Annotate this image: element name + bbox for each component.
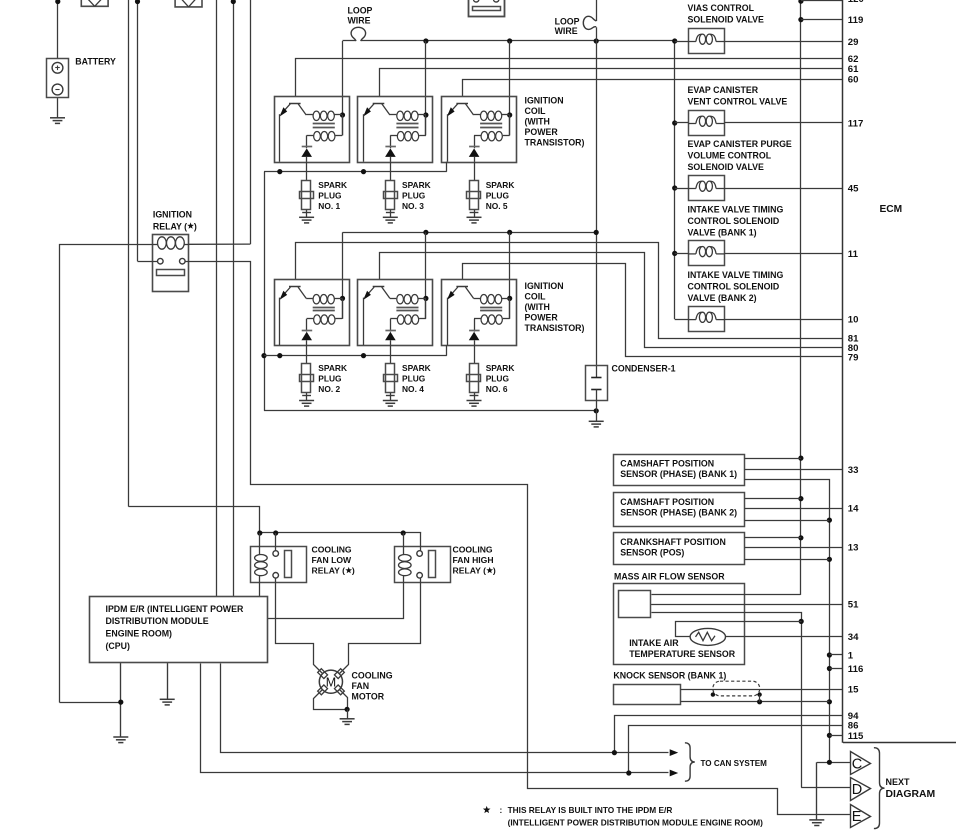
svg-text::: :	[500, 805, 503, 815]
ignition coil 1	[275, 97, 350, 163]
svg-text:11: 11	[848, 249, 859, 260]
wire purge valve to ECM45	[725, 188, 844, 190]
svg-text:CAMSHAFT POSITION: CAMSHAFT POSITION	[620, 497, 714, 507]
label NO. 4	[402, 363, 431, 394]
wire D feed	[801, 787, 850, 789]
wire ECM116 stub	[829, 668, 843, 670]
fusible link 1	[81, 0, 108, 6]
svg-text:MASS AIR FLOW SENSOR: MASS AIR FLOW SENSOR	[614, 572, 725, 582]
cooling fan high relay	[395, 546, 451, 582]
wire intake valve 1 to ECM11	[725, 253, 844, 255]
svg-text:WIRE: WIRE	[348, 16, 371, 26]
wire battery line to relay coil	[60, 245, 153, 703]
label INTAKE VALVE TIMING CONTROL SOLENOID VALVE (BANK 2)	[688, 270, 784, 303]
wire coil5 to spark plug 5	[474, 162, 476, 181]
wire lower coil common bus	[264, 345, 447, 358]
wire to IPDM vertical 2	[231, 0, 236, 597]
wire ECM60 to coil5 base	[463, 80, 843, 97]
svg-text:15: 15	[848, 685, 859, 696]
wire low relay contact top	[275, 533, 277, 551]
wire cam2 signal to ECM14	[745, 508, 843, 510]
svg-text:(INTELLIGENT POWER DISTRIBUTIO: (INTELLIGENT POWER DISTRIBUTION MODULE E…	[508, 818, 764, 828]
wire fan relay bus	[257, 530, 421, 535]
svg-text:29: 29	[848, 37, 859, 48]
wire bus to coil4 primary	[423, 232, 428, 318]
svg-text:): )	[194, 221, 197, 231]
wire cam1 supply	[745, 458, 801, 460]
label NO. 2	[318, 363, 347, 394]
footnote	[500, 805, 764, 828]
loop wire 2	[583, 16, 596, 29]
label NO. 1	[318, 180, 347, 211]
svg-text:VENT CONTROL VALVE: VENT CONTROL VALVE	[688, 96, 788, 106]
star ignition relay	[187, 221, 197, 231]
label IGNITION RELAY	[153, 209, 192, 231]
ECM boundary	[843, 0, 956, 743]
spark plug NO. 3	[383, 181, 398, 223]
svg-text:SOLENOID VALVE: SOLENOID VALVE	[688, 162, 765, 172]
svg-text:IGNITION: IGNITION	[153, 209, 192, 219]
IPDM E/R box	[90, 597, 268, 663]
svg-text:FAN LOW: FAN LOW	[312, 555, 353, 565]
star FAN LOW	[345, 566, 355, 576]
label COOLING FAN MOTOR	[352, 671, 393, 702]
wire relay contact output	[186, 262, 851, 815]
wire cam2 supply	[745, 498, 801, 500]
wire to IPDM vertical 1	[216, 0, 218, 597]
wire ECM86 to CAN low	[626, 726, 842, 776]
ignition relay	[153, 235, 189, 292]
battery	[47, 59, 69, 98]
svg-text:WIRE: WIRE	[555, 26, 578, 36]
wire fuse to relay contact (left)	[138, 261, 158, 263]
wire loop bus to coil5 primary	[507, 41, 512, 135]
wire coil1 to spark plug 1	[306, 162, 308, 181]
label IGNITION COIL (upper)	[525, 96, 585, 148]
camshaft position sensor (phase) (bank 1)	[614, 455, 745, 486]
svg-text:C: C	[852, 756, 862, 772]
wire shield vertical dots	[827, 518, 832, 739]
svg-text:120: 120	[848, 0, 864, 5]
condenser C1	[586, 366, 608, 411]
wire motor to ground	[314, 690, 355, 725]
svg-text:61: 61	[848, 64, 859, 75]
svg-text:VOLUME CONTROL: VOLUME CONTROL	[688, 151, 772, 161]
wire IPDM CAN high	[221, 664, 669, 753]
spark plug NO. 2	[299, 364, 314, 407]
wire coil4 to spark plug 4	[390, 345, 392, 364]
ignition coil 3	[358, 97, 433, 163]
loop wire 1	[351, 27, 366, 41]
wire MAF signal to ECM51	[651, 604, 843, 606]
EVAP canister purge volume control solenoid valve	[688, 176, 724, 201]
ignition coil 2	[275, 280, 350, 346]
svg-text:45: 45	[848, 183, 859, 194]
svg-text:SPARK: SPARK	[402, 180, 431, 190]
svg-text:NO. 3: NO. 3	[402, 201, 424, 211]
wire VIAS to ECM29	[725, 41, 844, 43]
spark plug NO. 6	[467, 364, 482, 407]
svg-text:ECM: ECM	[880, 204, 903, 215]
wire loop bus to coil1 primary	[340, 41, 345, 135]
VIAS control solenoid valve	[688, 29, 724, 54]
svg-text:(CPU): (CPU)	[106, 641, 131, 651]
svg-text:NO. 5: NO. 5	[486, 201, 508, 211]
svg-text:SENSOR (POS): SENSOR (POS)	[620, 548, 684, 558]
wire purge valve left	[675, 188, 689, 190]
battery ground	[50, 98, 65, 123]
knock sensor (bank 1)	[614, 685, 681, 705]
wire high relay contact to motor	[340, 579, 421, 674]
svg-text:PLUG: PLUG	[318, 374, 341, 384]
svg-text:NO. 1: NO. 1	[318, 201, 340, 211]
wire ECM94 to CAN high	[612, 716, 843, 756]
shield drain ground	[809, 762, 824, 825]
wire knock signal to ECM15	[681, 689, 844, 691]
svg-text:TRANSISTOR): TRANSISTOR)	[525, 138, 585, 148]
wire bus to coil2 primary	[340, 232, 345, 318]
wire ECM81 to coil2 base	[296, 243, 843, 339]
svg-text:RELAY (: RELAY (	[153, 221, 187, 231]
wire crank low	[745, 559, 830, 561]
CAN high arrow	[670, 749, 679, 756]
wire intake valve 2 left	[675, 319, 689, 321]
camshaft position sensor (phase) (bank 2)	[614, 493, 745, 527]
svg-text:E: E	[852, 809, 862, 825]
label IGNITION COIL (lower)	[525, 281, 585, 333]
svg-text:POWER: POWER	[525, 313, 559, 323]
ignition coil 4	[358, 280, 433, 346]
relay (top, partial)	[469, 0, 505, 17]
svg-text:1: 1	[848, 650, 854, 661]
dot MAF/IAT junction	[799, 619, 804, 624]
svg-text:SOLENOID VALVE: SOLENOID VALVE	[688, 15, 765, 25]
wire upper bus to lower bus vertical	[261, 172, 266, 411]
svg-text:SPARK: SPARK	[318, 363, 347, 373]
svg-text:SPARK: SPARK	[402, 363, 431, 373]
wire fuse to ignition-relay-contact vertical	[135, 0, 140, 261]
svg-text:VALVE (BANK 1): VALVE (BANK 1)	[688, 227, 757, 237]
wire cam1 signal to ECM33	[745, 469, 843, 471]
shielded cable	[711, 681, 762, 702]
wire coil6 to spark plug 6	[474, 345, 476, 364]
label VIAS CONTROL SOLENOID VALVE	[688, 3, 765, 25]
wire loop bus to coil3 primary	[423, 41, 428, 135]
svg-text:RELAY (: RELAY (	[453, 566, 487, 576]
svg-text:33: 33	[848, 465, 859, 476]
svg-text:116: 116	[848, 664, 863, 675]
svg-text:60: 60	[848, 75, 859, 86]
wire coil2 to spark plug 2	[306, 345, 308, 364]
svg-text:LOOP: LOOP	[555, 16, 580, 26]
intake valve timing control solenoid valve (bank 2)	[688, 307, 724, 332]
svg-text:THIS RELAY IS BUILT INTO THE I: THIS RELAY IS BUILT INTO THE IPDM E/R	[508, 805, 673, 815]
svg-text:IGNITION: IGNITION	[525, 96, 564, 106]
connector E	[851, 805, 871, 828]
wire coil3 to spark plug 3	[390, 162, 392, 181]
svg-text:COIL: COIL	[525, 292, 547, 302]
wire sensor common vertical (upper)	[798, 0, 803, 595]
wire ECM62 to coil1 base	[296, 59, 843, 97]
svg-text:): )	[493, 566, 496, 576]
svg-text:115: 115	[848, 731, 864, 742]
wire upper coil common bus	[264, 162, 447, 175]
svg-text:TO CAN SYSTEM: TO CAN SYSTEM	[701, 759, 768, 768]
svg-text:COOLING: COOLING	[312, 545, 352, 555]
wire IPDM ground 2	[160, 663, 175, 705]
wire ECM79 to coil6 base	[463, 264, 843, 357]
spark plug NO. 4	[383, 364, 398, 407]
label NO. 3	[402, 180, 431, 211]
svg-text:INTAKE VALVE TIMING: INTAKE VALVE TIMING	[688, 204, 784, 214]
label EVAP CANISTER PURGE VOLUME CONTROL SOLENOID VALVE	[688, 139, 792, 172]
wire IPDM CAN low	[201, 664, 669, 773]
fusible link 2	[175, 0, 202, 7]
wire to ignition-relay-coil vertical	[250, 0, 252, 244]
brace NEXT DIAGRAM	[874, 748, 885, 829]
wire relay coil to top vertical	[189, 243, 251, 245]
svg-text:INTAKE AIR: INTAKE AIR	[629, 638, 679, 648]
svg-text:TRANSISTOR): TRANSISTOR)	[525, 323, 585, 333]
svg-text:FAN: FAN	[352, 681, 370, 691]
wire IPDM ground 1	[60, 663, 129, 743]
wire cam1 low	[745, 480, 830, 763]
wire intake valve 2 to ECM10	[725, 319, 844, 321]
svg-text:TEMPERATURE SENSOR: TEMPERATURE SENSOR	[629, 649, 736, 659]
wire solenoid feeder vertical	[672, 38, 677, 319]
svg-text:DISTRIBUTION MODULE: DISTRIBUTION MODULE	[106, 616, 209, 626]
svg-text:PLUG: PLUG	[486, 374, 509, 384]
wire shield drain to C	[817, 760, 851, 765]
wire bus to coil6 primary	[507, 232, 512, 318]
wire ECM119 stub	[801, 19, 843, 21]
ignition coil 6	[442, 280, 517, 346]
svg-text:CONTROL SOLENOID: CONTROL SOLENOID	[688, 281, 780, 291]
wire intake valve 1 left	[675, 253, 689, 255]
wire lower coil feed bus	[343, 230, 599, 235]
svg-text:PLUG: PLUG	[402, 190, 425, 200]
svg-text:10: 10	[848, 315, 859, 326]
svg-text:BATTERY: BATTERY	[75, 57, 116, 67]
svg-text:SENSOR (PHASE) (BANK 1): SENSOR (PHASE) (BANK 1)	[620, 469, 737, 479]
svg-text:VIAS CONTROL: VIAS CONTROL	[688, 3, 755, 13]
svg-text:POWER: POWER	[525, 127, 559, 137]
label NO. 5	[486, 180, 515, 211]
svg-text:PLUG: PLUG	[402, 374, 425, 384]
svg-text:119: 119	[848, 15, 863, 26]
svg-text:DIAGRAM: DIAGRAM	[886, 789, 936, 800]
svg-text:EVAP CANISTER: EVAP CANISTER	[688, 85, 759, 95]
svg-text:CONDENSER-1: CONDENSER-1	[612, 364, 676, 374]
wire ECM61 to coil3 base	[380, 69, 843, 97]
svg-text:INTAKE VALVE TIMING: INTAKE VALVE TIMING	[688, 270, 784, 280]
wire condenser vertical (top)	[596, 0, 598, 377]
star FAN HIGH	[486, 566, 496, 576]
svg-text:PLUG: PLUG	[318, 190, 341, 200]
svg-text:SPARK: SPARK	[486, 363, 515, 373]
svg-text:(WITH: (WITH	[525, 117, 550, 127]
svg-text:NEXT: NEXT	[886, 777, 911, 787]
svg-text:SENSOR (PHASE) (BANK 2): SENSOR (PHASE) (BANK 2)	[620, 507, 737, 517]
cooling fan motor	[318, 669, 345, 695]
EVAP canister vent control valve	[688, 111, 724, 136]
svg-text:IGNITION: IGNITION	[525, 281, 564, 291]
svg-text:): )	[352, 566, 355, 576]
footnote star	[483, 806, 491, 813]
svg-text:MOTOR: MOTOR	[352, 692, 385, 702]
spark plug NO. 5	[467, 181, 482, 223]
wire low relay coil to IPDM	[259, 583, 261, 597]
svg-text:PLUG: PLUG	[486, 190, 509, 200]
wire VIAS left	[675, 41, 689, 43]
svg-text:COOLING: COOLING	[352, 671, 393, 681]
svg-text:COOLING: COOLING	[453, 545, 493, 555]
ignition coil 5	[442, 97, 517, 163]
mass air flow sensor	[614, 584, 745, 665]
svg-text:RELAY (: RELAY (	[312, 566, 346, 576]
svg-text:FAN HIGH: FAN HIGH	[453, 555, 494, 565]
connector C	[851, 752, 871, 775]
label NO. 6	[486, 363, 515, 394]
svg-text:D: D	[852, 782, 862, 798]
svg-text:34: 34	[848, 632, 859, 643]
svg-text:ENGINE ROOM): ENGINE ROOM)	[106, 629, 173, 639]
svg-text:LOOP: LOOP	[348, 5, 373, 15]
svg-text:NO. 6: NO. 6	[486, 384, 508, 394]
wire fan relay feed	[129, 507, 260, 533]
crankshaft position sensor (pos)	[614, 533, 745, 565]
cooling fan low relay	[251, 546, 307, 582]
wire high relay contact top	[420, 533, 422, 551]
svg-text:(WITH: (WITH	[525, 302, 550, 312]
svg-text:CAMSHAFT POSITION: CAMSHAFT POSITION	[620, 459, 714, 469]
spark plug NO. 1	[299, 181, 314, 223]
wire IAT to ECM34	[726, 636, 844, 638]
wire vent valve to ECM117	[725, 122, 844, 124]
label FAN HIGH	[453, 545, 494, 576]
wire high relay coil to IPDM	[268, 583, 404, 619]
label INTAKE VALVE TIMING CONTROL SOLENOID VALVE (BANK 1)	[688, 204, 784, 237]
svg-text:NO. 2: NO. 2	[318, 384, 340, 394]
wire ECM top pin stub	[801, 0, 843, 2]
wire ECM115 stub	[829, 735, 843, 737]
label LOOP WIRE 1	[348, 5, 373, 25]
svg-text:14: 14	[848, 504, 859, 515]
label NEXT DIAGRAM	[886, 777, 936, 800]
wire knock return	[681, 699, 830, 704]
svg-text:79: 79	[848, 352, 859, 363]
wire ECM1 stub	[829, 654, 843, 656]
wire MAF supply	[652, 594, 801, 596]
wire ECM80 to coil4 base	[380, 253, 843, 348]
intake air temperature sensor	[676, 622, 802, 646]
wire fuse to fan-low-relay vertical	[128, 0, 130, 507]
wire high relay coil top	[403, 533, 405, 546]
svg-text:KNOCK SENSOR (BANK 1): KNOCK SENSOR (BANK 1)	[613, 670, 726, 680]
label INTAKE AIR TEMPERATURE SENSOR	[629, 638, 736, 659]
wire MAF ground to D-line	[652, 613, 802, 788]
svg-text:SPARK: SPARK	[486, 180, 515, 190]
wire loop bus	[343, 38, 675, 43]
wire ground bus (bottom of coil section)	[264, 408, 599, 413]
connector D	[851, 778, 871, 801]
wire low relay coil top	[259, 533, 261, 546]
svg-text:13: 13	[848, 543, 859, 554]
svg-text:51: 51	[848, 600, 859, 611]
wire crank supply	[745, 537, 801, 539]
svg-text:SPARK: SPARK	[318, 180, 347, 190]
wire low relay contact to motor	[276, 579, 323, 674]
svg-text:COIL: COIL	[525, 106, 547, 116]
svg-text:117: 117	[848, 118, 863, 129]
label FAN LOW	[312, 545, 353, 576]
svg-text:CRANKSHAFT POSITION: CRANKSHAFT POSITION	[620, 537, 726, 547]
svg-text:NO. 4: NO. 4	[402, 384, 424, 394]
wire vent valve left	[675, 122, 689, 124]
wire cam2 low	[745, 520, 830, 522]
CAN low arrow	[670, 770, 679, 777]
wire battery feed	[55, 0, 60, 59]
intake valve timing control solenoid valve (bank 1)	[688, 241, 724, 266]
brace CAN	[685, 743, 695, 781]
label EVAP CANISTER VENT CONTROL VALVE	[688, 85, 788, 107]
svg-text:IPDM E/R (INTELLIGENT POWER: IPDM E/R (INTELLIGENT POWER	[106, 604, 244, 614]
label LOOP WIRE 2	[555, 16, 580, 36]
wire crank signal to ECM13	[745, 547, 843, 549]
condenser ground	[589, 411, 604, 427]
svg-text:VALVE (BANK 2): VALVE (BANK 2)	[688, 293, 757, 303]
svg-text:EVAP CANISTER PURGE: EVAP CANISTER PURGE	[688, 139, 792, 149]
svg-text:CONTROL SOLENOID: CONTROL SOLENOID	[688, 216, 780, 226]
